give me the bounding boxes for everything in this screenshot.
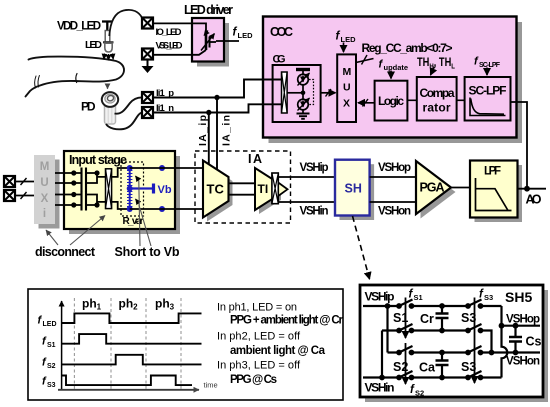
svg-text:CG: CG	[273, 54, 286, 66]
CG box	[273, 65, 321, 122]
svg-text:VDD_LED: VDD_LED	[57, 21, 101, 33]
MUXi block	[34, 155, 55, 224]
TH arrow into Comparator	[431, 67, 435, 76]
wires TC to TI	[229, 183, 256, 194]
LPF curve	[476, 178, 512, 211]
switch S1b blade	[399, 324, 413, 331]
LED component	[103, 31, 114, 53]
arrow finger to PD	[107, 84, 109, 89]
MUXi letters	[40, 161, 50, 220]
chopper in CG	[282, 72, 288, 113]
MUXi shadow	[39, 160, 60, 229]
svg-text:VSHin: VSHin	[300, 206, 329, 218]
svg-text:Logic: Logic	[378, 94, 404, 108]
svg-text:VSHon: VSHon	[378, 206, 411, 218]
svg-text:In ph3, LED = off: In ph3, LED = off	[217, 360, 301, 372]
wires chopper to R_var	[112, 168, 130, 209]
COC block	[263, 17, 517, 138]
Input stage shadow	[69, 156, 180, 234]
PGA shadow	[421, 166, 456, 219]
svg-text:X: X	[41, 193, 49, 205]
finger sketch	[26, 57, 125, 97]
input lines from MUXi	[55, 173, 81, 205]
wires merge to chopper	[97, 177, 106, 202]
node on li1_n	[206, 110, 211, 115]
time axis	[58, 389, 199, 391]
buffer triangle	[278, 182, 288, 197]
switch S3a blade	[468, 300, 482, 307]
svg-text:rator: rator	[423, 101, 451, 115]
Comparator box	[417, 77, 457, 121]
svg-text:PD: PD	[81, 100, 96, 114]
svg-text:PPG + ambient light @ Cr: PPG + ambient light @ Cr	[230, 315, 344, 327]
svg-text:LED: LED	[43, 321, 57, 328]
chopper in input stage	[106, 169, 112, 209]
svg-text:disconnect: disconnect	[35, 245, 96, 259]
SC-LPF box	[465, 77, 511, 121]
wire Logic to MUX	[358, 102, 375, 104]
svg-text:Input stage: Input stage	[69, 153, 127, 167]
switch nodes	[379, 303, 518, 380]
svg-text:SC-LPF: SC-LPF	[479, 62, 501, 69]
f_S3 control arrow	[474, 298, 476, 384]
svg-text:S2: S2	[415, 389, 424, 398]
svg-text:Short to Vb: Short to Vb	[115, 245, 180, 259]
svg-text:ambient light @ Ca: ambient light @ Ca	[230, 345, 326, 357]
TI shadow	[259, 172, 281, 214]
wire VSHop	[370, 176, 416, 178]
svg-text:U: U	[343, 82, 351, 94]
capacitor pair bottom	[82, 191, 87, 211]
svg-text:X: X	[343, 98, 350, 110]
svg-text:S3: S3	[461, 311, 476, 325]
wire IA_ip vertical	[208, 113, 210, 165]
svg-text:Vb: Vb	[158, 184, 172, 196]
svg-text:time: time	[204, 381, 218, 390]
svg-text:Cr: Cr	[420, 312, 434, 326]
wire li1_n to COC	[153, 104, 282, 112]
wire PGA to LPF	[451, 187, 470, 189]
wire MUX Reg output	[356, 59, 374, 63]
Cs plates	[509, 337, 522, 342]
VDD_LED supply T symbol	[102, 22, 112, 32]
wire Comparator to SC-LPF	[457, 99, 465, 101]
rail L4 VSHin	[363, 376, 502, 378]
svg-text:IA_in: IA_in	[221, 115, 233, 146]
junction nodes	[385, 303, 391, 309]
svg-text:THH, THL: THH, THL	[417, 57, 455, 71]
Ca plates	[436, 361, 449, 366]
AO node	[524, 186, 530, 192]
Cs connections	[514, 326, 516, 353]
SH5 box shadow	[365, 290, 548, 402]
Vb wire	[130, 187, 153, 189]
LED light arrows	[104, 54, 113, 61]
rail L2	[382, 331, 492, 353]
f_S3 waveform	[62, 376, 192, 386]
timing diagram box	[28, 289, 343, 400]
Logic box	[375, 81, 408, 121]
svg-text:In ph2, LED = off: In ph2, LED = off	[217, 331, 301, 343]
svg-text:U: U	[40, 177, 48, 189]
svg-text:S3: S3	[47, 382, 56, 389]
wire SC-LPF output to AO node	[511, 102, 528, 189]
switch S3d blade	[468, 371, 482, 378]
svg-text:In ph1, LED = on: In ph1, LED = on	[217, 302, 297, 314]
left pad A	[4, 176, 15, 187]
svg-text:SH: SH	[345, 182, 362, 196]
pad VSS_LED	[142, 49, 153, 60]
f_S2 waveform	[62, 355, 202, 365]
svg-text:VSHop: VSHop	[378, 162, 411, 174]
svg-text:S3: S3	[461, 360, 476, 374]
svg-text:VSS_LED: VSS_LED	[156, 40, 183, 51]
svg-text:VSHin: VSHin	[365, 381, 395, 395]
ground in CG	[302, 110, 304, 113]
switch S2b blade	[399, 371, 413, 378]
wire IA_in vertical	[216, 98, 218, 171]
svg-text:VSHip: VSHip	[365, 290, 395, 304]
f_LED waveform	[62, 313, 202, 323]
LED driver block shadow	[197, 23, 229, 67]
wire VSHon	[370, 201, 416, 203]
svg-text:PPG @ Cs: PPG @ Cs	[230, 374, 277, 386]
wire LED anode to IO_LED pad	[109, 10, 142, 36]
wire Comparator to Logic	[407, 99, 416, 101]
switch S3b blade	[468, 324, 482, 331]
wire VSHin	[278, 201, 335, 203]
LPF block	[470, 161, 518, 218]
capacitor pair top	[82, 168, 87, 192]
svg-text:TI: TI	[258, 182, 269, 196]
node on li1_p	[214, 95, 219, 100]
svg-text:COC: COC	[270, 25, 293, 39]
disconnect leader arrows	[46, 230, 58, 245]
svg-text:VSHip: VSHip	[300, 162, 329, 174]
Input stage box	[64, 151, 175, 229]
wire pad A to MUXi	[15, 181, 34, 183]
TC block	[203, 161, 229, 218]
svg-text:M: M	[40, 161, 50, 173]
left vertical V2	[381, 331, 383, 378]
MUX box	[337, 54, 356, 122]
svg-text:R_var: R_var	[123, 216, 144, 227]
svg-text:LED: LED	[85, 39, 102, 51]
wire f_LED from driver	[216, 40, 239, 42]
svg-text:SC-LPF: SC-LPF	[469, 84, 507, 98]
COC block shadow	[269, 22, 523, 143]
f_S1 control arrow	[405, 298, 407, 339]
switch S1a blade	[399, 300, 413, 307]
dotted control line CG	[309, 80, 314, 105]
Short to Vb leader arrows	[139, 181, 140, 246]
f_S2 control arrow	[405, 343, 407, 384]
wire between current sources	[302, 85, 304, 99]
wire LPF to AO	[518, 188, 547, 190]
wire input stage to TC top	[130, 167, 203, 169]
f_update arrow	[390, 71, 392, 79]
SC-LPF curve	[470, 98, 506, 116]
svg-text:LPF: LPF	[484, 166, 501, 178]
svg-text:VSHop: VSHop	[506, 314, 540, 326]
phase boundary dashed lines	[74, 298, 181, 389]
svg-text:i: i	[43, 208, 46, 220]
svg-text:M: M	[343, 66, 352, 78]
wire VSS_LED to driver	[153, 50, 206, 55]
output chopper	[272, 173, 278, 204]
VDD bar in CG	[296, 68, 310, 71]
wire li1_p inside COC	[263, 79, 282, 81]
wire chopper to sources node	[287, 92, 303, 94]
wire PD to li1_p pad	[115, 97, 143, 113]
SH block	[335, 160, 370, 216]
pad li1_n	[142, 107, 153, 118]
rail L1 VSHip	[363, 305, 502, 307]
svg-text:LED: LED	[238, 31, 254, 40]
svg-text:IA_ip: IA_ip	[197, 115, 209, 146]
wire li1_p to COC	[153, 80, 282, 98]
svg-text:Cs: Cs	[526, 335, 542, 349]
svg-text:Ca: Ca	[419, 361, 436, 375]
SH5 box	[360, 285, 543, 397]
LED driver block	[192, 18, 224, 62]
small arrows in R_var	[136, 176, 140, 181]
LPF shadow	[475, 165, 523, 222]
svg-text:S3: S3	[484, 293, 493, 302]
TI block	[255, 168, 277, 210]
svg-text:S1: S1	[393, 311, 408, 325]
wires caps to merge	[86, 173, 97, 205]
svg-text:TC: TC	[207, 182, 225, 197]
transistor Q1 in driver	[201, 31, 216, 51]
photodiode PD (3D)	[102, 92, 118, 124]
nodes on input lines	[71, 170, 76, 175]
TC shadow	[207, 165, 233, 222]
switch S3c blade	[468, 346, 482, 353]
Ca connections	[441, 353, 443, 378]
f_S1 waveform	[62, 334, 202, 344]
IA dashed box	[195, 151, 291, 223]
left pad B	[4, 190, 15, 201]
rail L3 VSHon	[388, 351, 541, 353]
right vertical with hop	[502, 306, 508, 378]
switch S2a blade	[399, 346, 413, 353]
wire pad B to MUXi	[15, 195, 34, 197]
wire li1_n inside COC	[263, 103, 282, 105]
svg-text:LED driver: LED driver	[184, 3, 233, 17]
dashed arrow SH to SH5	[353, 216, 370, 279]
svg-text:Reg_CC_amb<0:7>: Reg_CC_amb<0:7>	[362, 41, 453, 55]
Cr connections	[441, 306, 443, 331]
pad li1_p	[142, 92, 153, 103]
wire IO_LED to driver	[153, 23, 206, 34]
svg-text:PGA: PGA	[420, 181, 445, 195]
SH shadow	[340, 164, 375, 220]
PGA block	[416, 161, 451, 214]
wire CG to MUX	[321, 92, 336, 94]
R_var dotted box	[121, 162, 144, 216]
svg-text:IO_LED: IO_LED	[156, 27, 182, 38]
blue resistor ladder	[127, 168, 132, 209]
svg-text:SH5: SH5	[505, 289, 532, 305]
wire input stage to TC bottom	[130, 208, 203, 210]
blue nodes	[127, 165, 133, 171]
wire PD to li1_n pad	[106, 113, 142, 130]
current source I1	[298, 74, 309, 85]
f_SC-LPF arrow	[486, 68, 488, 76]
VSHop rail	[502, 325, 541, 327]
svg-text:S2: S2	[47, 363, 56, 370]
left vertical V1	[386, 306, 388, 353]
svg-text:update: update	[384, 63, 409, 72]
svg-text:IA: IA	[248, 152, 262, 166]
svg-text:VSHon: VSHon	[506, 356, 540, 368]
ground under VSS_LED	[147, 60, 149, 67]
wire VSHip	[278, 176, 335, 178]
svg-text:Compa: Compa	[420, 86, 455, 100]
svg-text:S2: S2	[393, 360, 408, 374]
svg-text:S1: S1	[47, 342, 56, 349]
Cr plates	[436, 314, 449, 319]
timing vertical axis	[61, 301, 63, 390]
f_LED arrow into MUX	[343, 43, 345, 53]
current source I2	[298, 99, 309, 110]
svg-text:AO: AO	[526, 193, 542, 207]
svg-text:S1: S1	[414, 293, 423, 302]
pad IO_LED	[142, 18, 153, 29]
